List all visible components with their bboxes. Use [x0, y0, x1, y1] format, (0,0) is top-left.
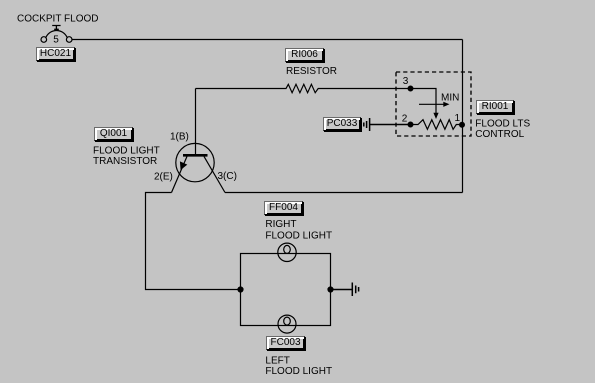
switch HC021 toggle lever: [46, 26, 67, 38]
ground (right of lamp loop): [331, 283, 359, 297]
transistor QI001 emitter: [172, 156, 188, 192]
svg-text:3: 3: [403, 76, 409, 87]
switch HC021 right contact: [66, 37, 72, 43]
reference designator button QI001: [94, 127, 133, 141]
wire: right vertical bus: [462, 40, 464, 193]
transistor QI001 emitter arrow: [180, 161, 187, 170]
svg-text:1(B): 1(B): [170, 131, 189, 142]
svg-text:RESISTOR: RESISTOR: [286, 66, 337, 77]
transistor QI001 body: [176, 143, 214, 181]
lamp loop rectangle: [241, 254, 331, 326]
svg-text:CONTROL: CONTROL: [475, 129, 524, 140]
reference designator button RI001: [476, 100, 514, 114]
reference designator button FF004: [264, 201, 303, 215]
node 3: [408, 86, 413, 91]
svg-text:RIGHT: RIGHT: [265, 219, 296, 230]
wire: collector horizontal run: [225, 192, 463, 194]
svg-text:FLOOD LTS: FLOOD LTS: [475, 119, 530, 130]
node 2: [408, 122, 413, 127]
potentiometer RI001: [411, 120, 463, 130]
reference designator button FC003: [266, 336, 305, 350]
node 1: [460, 122, 465, 127]
reference designator button RI006: [285, 48, 324, 62]
reference designator button PC033: [323, 117, 361, 131]
wire: node 3 to wiper: [411, 89, 437, 115]
lamp FF004: [278, 243, 296, 261]
dashed enclosure FLOOD LTS CONTROL: [396, 72, 471, 136]
svg-text:COCKPIT FLOOD: COCKPIT FLOOD: [17, 14, 99, 25]
wiper arrowhead: [433, 113, 438, 119]
ground (PC033): [364, 118, 411, 131]
svg-text:5: 5: [53, 35, 59, 46]
transistor QI001 base bar: [183, 154, 208, 157]
svg-text:FLOOD LIGHT: FLOOD LIGHT: [265, 366, 332, 377]
svg-text:LEFT: LEFT: [265, 356, 289, 367]
svg-text:3(C): 3(C): [218, 171, 237, 182]
resistor RI006: [196, 84, 411, 92]
svg-text:FLOOD LIGHT: FLOOD LIGHT: [93, 146, 160, 157]
wire: switch to top-right corner: [72, 39, 463, 41]
svg-text:MIN: MIN: [441, 92, 459, 103]
switch HC021 left contact: [41, 37, 47, 43]
wire: base vertical: [195, 89, 197, 155]
svg-text:1: 1: [455, 113, 461, 124]
node: loop right junction: [328, 287, 333, 292]
svg-text:2: 2: [402, 113, 408, 124]
svg-text:TRANSISTOR: TRANSISTOR: [93, 156, 157, 167]
node: loop left junction: [238, 287, 243, 292]
MIN direction arrow: [419, 102, 450, 107]
svg-text:FLOOD LIGHT: FLOOD LIGHT: [265, 230, 332, 241]
lamp FC003: [278, 315, 296, 333]
transistor QI001 collector: [204, 156, 225, 192]
reference designator button HC021: [36, 47, 75, 61]
wire: emitter run to lamp loop: [146, 193, 241, 290]
svg-text:2(E): 2(E): [154, 171, 173, 182]
